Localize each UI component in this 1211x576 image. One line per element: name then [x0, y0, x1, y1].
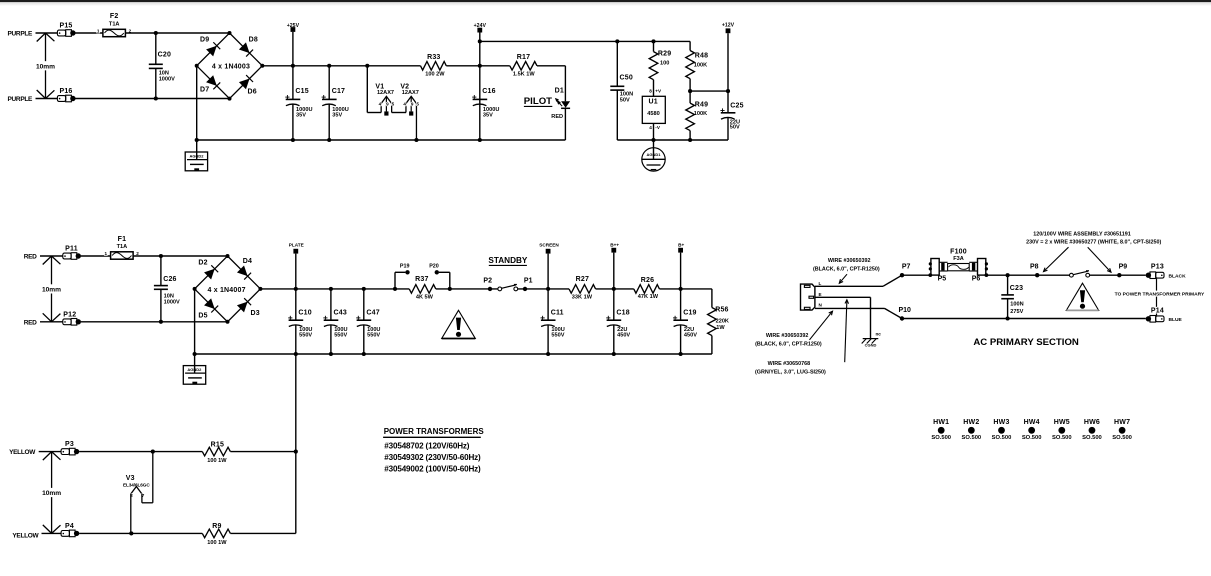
- node junction C47 on bus: [362, 287, 366, 291]
- label 4 x 1N4007: [207, 287, 245, 294]
- wire switch to SCREEN node: [518, 288, 569, 290]
- capacitor C20 10N 1000V: [149, 33, 175, 99]
- svg-text:4: 4: [403, 102, 406, 107]
- node junction R48 bottom: [688, 89, 692, 93]
- node junction R49 bottom: [688, 138, 692, 142]
- wire R37 to switch: [436, 288, 498, 290]
- note POWER TRANSFORMERS heading: [383, 427, 484, 438]
- switch standby P2-P1: [498, 285, 518, 291]
- svg-text:120/100V WIRE ASSEMBLY #306511: 120/100V WIRE ASSEMBLY #30651191: [1033, 231, 1131, 237]
- wire bottom bus segment A: [197, 139, 566, 141]
- wire PURPLE leader to P15: [36, 32, 58, 34]
- power rail +25V: [287, 23, 300, 66]
- svg-text:50V: 50V: [730, 124, 740, 130]
- svg-text:+12V: +12V: [722, 23, 735, 29]
- svg-text:D9: D9: [200, 36, 209, 43]
- hardware HW4 SO.500: [1022, 419, 1042, 441]
- svg-text:47K 1W: 47K 1W: [638, 294, 659, 300]
- svg-text:450V: 450V: [684, 332, 697, 338]
- resistor R15 100 1W: [202, 441, 230, 464]
- svg-text:P6: P6: [972, 276, 981, 283]
- bridge rectifier diamond (middle): [193, 254, 263, 324]
- ground AGND2 (top): [185, 140, 207, 171]
- wire P12 to bridge bottom vertex: [81, 321, 228, 323]
- label PILOT: [524, 96, 553, 107]
- ground CGND chassis: [862, 331, 882, 347]
- svg-text:BLUE: BLUE: [1169, 317, 1183, 323]
- connector P11: [63, 245, 81, 259]
- diode D3: [237, 298, 260, 317]
- arrow to P8 side: [1044, 247, 1069, 271]
- node RED lower input label: [24, 319, 37, 326]
- wire IEC N to P10: [815, 308, 902, 318]
- node junction C15 bottom: [291, 138, 295, 142]
- power rail SCREEN: [539, 243, 559, 289]
- svg-text:R56: R56: [715, 307, 728, 314]
- svg-text:50V: 50V: [620, 98, 630, 104]
- svg-text:+V: +V: [655, 89, 662, 94]
- svg-text:P1: P1: [524, 277, 533, 284]
- svg-text:HW5: HW5: [1054, 419, 1070, 426]
- node junction V3 tap on P3 row: [151, 450, 155, 454]
- node P7: [900, 264, 911, 278]
- svg-text:F2: F2: [110, 13, 119, 20]
- svg-text:R17: R17: [517, 54, 530, 61]
- tube heater V3 EL34/6L6GC: [123, 452, 153, 534]
- wire PLATE node down to heater section: [295, 354, 297, 533]
- svg-text:8: 8: [649, 89, 652, 94]
- node junction C23 bottom: [1006, 316, 1010, 320]
- svg-text:4 x 1N4003: 4 x 1N4003: [212, 63, 250, 70]
- capacitor C19 22U 450V: [673, 289, 697, 354]
- wire P16 to bridge bottom vertex: [76, 98, 230, 100]
- node junction C43 bottom: [329, 352, 333, 356]
- svg-text:550V: 550V: [299, 332, 312, 338]
- svg-text:33K 1W: 33K 1W: [572, 295, 593, 301]
- svg-text:-V: -V: [655, 125, 661, 130]
- svg-text:450V: 450V: [617, 332, 630, 338]
- diode D4: [237, 258, 252, 280]
- wire P8 to switch: [1037, 274, 1069, 276]
- node junction C10/PLATE on bus: [294, 287, 298, 291]
- node junction C43 on bus: [329, 287, 333, 291]
- node PURPLE lower input label: [8, 96, 34, 103]
- svg-text:CGND: CGND: [865, 343, 877, 348]
- svg-text:P2: P2: [483, 277, 492, 284]
- wire YELLOW leader to P3: [39, 451, 61, 453]
- capacitor C17 1000U 35V: [322, 66, 349, 140]
- node junction AGND2 tap (middle): [193, 352, 197, 356]
- svg-text:#30548702 (120V/60Hz): #30548702 (120V/60Hz): [384, 441, 470, 450]
- node P8: [1030, 264, 1039, 278]
- svg-text:(BLACK, 6.0", CPT-R1250): (BLACK, 6.0", CPT-R1250): [755, 341, 822, 347]
- svg-text:5: 5: [416, 102, 419, 107]
- svg-text:P8: P8: [1030, 264, 1039, 271]
- svg-text:R49: R49: [695, 102, 708, 109]
- svg-text:#30549002 (100V/50-60Hz): #30549002 (100V/50-60Hz): [384, 465, 481, 474]
- label AC PRIMARY SECTION: [973, 337, 1079, 348]
- resistor R26 47K 1W: [634, 277, 660, 300]
- diode D7: [200, 75, 220, 93]
- svg-text:230V = 2 x WIRE #30650277 (WHI: 230V = 2 x WIRE #30650277 (WHITE, 8.0", …: [1026, 239, 1161, 245]
- wire bottom bus segment B: [617, 139, 728, 141]
- diode D9: [200, 36, 220, 56]
- svg-text:AC PRIMARY SECTION: AC PRIMARY SECTION: [973, 337, 1079, 348]
- svg-text:WIRE #30650768: WIRE #30650768: [768, 361, 811, 367]
- svg-text:P9: P9: [1119, 264, 1128, 271]
- svg-text:SO.500: SO.500: [1022, 435, 1042, 441]
- wire top main bus (bridge+ to +24V node): [262, 65, 420, 67]
- resistor R17 1.5K 1W: [480, 54, 537, 77]
- connector P14 BLUE: [1146, 307, 1183, 323]
- node YELLOW upper input label: [9, 449, 36, 456]
- note transformer part 30549302: [384, 453, 481, 462]
- capacitor C15 1000U 35V: [285, 66, 312, 140]
- wire sub-bus +24V to R48: [480, 40, 690, 42]
- svg-text:35V: 35V: [332, 113, 342, 119]
- note wire 30650392 upper: [813, 258, 880, 283]
- svg-text:220K: 220K: [716, 319, 729, 325]
- capacitor C43 100U 550V: [323, 289, 347, 354]
- svg-text:P7: P7: [902, 264, 911, 271]
- svg-text:9: 9: [411, 102, 414, 107]
- svg-text:WIRE #30650392: WIRE #30650392: [766, 333, 809, 339]
- svg-text:4K 5W: 4K 5W: [416, 295, 434, 301]
- svg-text:R48: R48: [695, 53, 708, 60]
- node junction +12V/C25: [726, 89, 730, 93]
- node junction C26 bottom: [159, 320, 163, 324]
- svg-text:C10: C10: [298, 310, 311, 317]
- diode D8: [239, 36, 258, 56]
- svg-text:P10: P10: [898, 307, 911, 314]
- power rail B+: [678, 243, 684, 289]
- svg-text:C11: C11: [551, 310, 564, 317]
- hardware HW2 SO.500: [962, 419, 982, 441]
- svg-text:12AX7: 12AX7: [402, 90, 419, 96]
- svg-text:35V: 35V: [296, 113, 306, 119]
- node junction C26 top: [159, 254, 163, 258]
- diode D6: [239, 75, 257, 95]
- wire R9 to main vertical: [230, 532, 295, 534]
- node junction V2 pin5 on bottom bus: [414, 138, 418, 142]
- bridge rectifier diamond (top): [195, 31, 265, 101]
- node junction R15 right: [294, 450, 298, 454]
- node junction C17 bottom: [327, 138, 331, 142]
- jumper P20 test point: [429, 264, 450, 289]
- capacitor C25 22U 50V: [720, 91, 743, 140]
- svg-text:C47: C47: [366, 310, 379, 317]
- resistor R49 100K: [686, 91, 708, 140]
- svg-text:1: 1: [105, 251, 108, 256]
- ground AGND1 circle: [642, 140, 665, 171]
- svg-text:P3: P3: [65, 441, 74, 448]
- node junction AGND2 tap (top): [195, 138, 199, 142]
- note wire 30650768 grn/yel: [755, 300, 849, 376]
- diode D5: [198, 298, 218, 319]
- svg-text:C15: C15: [295, 88, 308, 95]
- svg-text:275V: 275V: [1010, 309, 1023, 315]
- label STANDBY: [488, 256, 528, 266]
- fuse F1 T1A: [105, 236, 140, 259]
- hardware HW1 SO.500: [931, 419, 951, 441]
- svg-text:C50: C50: [620, 75, 633, 82]
- svg-text:RED: RED: [24, 319, 37, 326]
- svg-text:B+: B+: [678, 243, 684, 248]
- svg-text:9: 9: [386, 102, 389, 107]
- wire R26 to R56 branch: [659, 288, 712, 290]
- svg-text:R27: R27: [576, 276, 589, 283]
- svg-text:1000V: 1000V: [164, 299, 180, 305]
- svg-text:SCREEN: SCREEN: [539, 243, 559, 248]
- svg-text:P20: P20: [429, 264, 439, 270]
- svg-text:P5: P5: [938, 276, 947, 283]
- resistor R29 100: [649, 41, 671, 96]
- capacitor C11 100U 550V: [541, 289, 565, 354]
- svg-text:1W: 1W: [716, 325, 725, 331]
- capacitor C26 10N 1000V: [154, 256, 180, 322]
- wire YELLOW leader to P4: [42, 532, 62, 534]
- svg-text:D2: D2: [198, 260, 207, 267]
- connector P4: [61, 523, 79, 537]
- svg-text:D7: D7: [200, 87, 209, 94]
- node junction R37 left: [393, 287, 397, 291]
- wire P13 to P14 link: [1156, 279, 1158, 316]
- node junction C23 top: [1006, 273, 1010, 277]
- tube heater V2 12AX7: [400, 83, 419, 140]
- svg-text:P4: P4: [65, 523, 74, 530]
- capacitor C10 100U 550V: [288, 289, 312, 354]
- svg-text:5: 5: [392, 102, 395, 107]
- svg-text:(BLACK, 6.0", CPT-R1250): (BLACK, 6.0", CPT-R1250): [813, 267, 880, 273]
- svg-text:HW4: HW4: [1024, 419, 1040, 426]
- capacitor C18 22U 450V: [606, 289, 630, 354]
- svg-text:C43: C43: [334, 310, 347, 317]
- node junction C10 bottom: [294, 352, 298, 356]
- note wire 30650392 lower: [755, 311, 832, 347]
- svg-text:HW2: HW2: [963, 419, 979, 426]
- svg-text:C25: C25: [730, 102, 743, 109]
- wire RED leader to P12: [40, 321, 63, 323]
- svg-text:N: N: [819, 303, 823, 308]
- svg-text:RED: RED: [24, 254, 37, 261]
- hardware HW7 SO.500: [1112, 419, 1132, 441]
- node junction heater branch: [365, 64, 369, 68]
- dimension arrow 10mm (red pair): [41, 256, 62, 322]
- svg-text:P12: P12: [63, 311, 76, 318]
- svg-text:B++: B++: [610, 243, 619, 248]
- connector P16: [57, 88, 75, 102]
- svg-text:4 x 1N4007: 4 x 1N4007: [207, 287, 245, 294]
- node P2 test point: [483, 277, 492, 291]
- svg-text:YELLOW: YELLOW: [12, 532, 39, 539]
- warning triangle (middle section): [442, 310, 476, 338]
- svg-text:C19: C19: [683, 310, 696, 317]
- resistor R27 33K 1W: [569, 276, 596, 301]
- svg-text:R29: R29: [658, 50, 671, 57]
- node junction C11 bottom: [546, 352, 550, 356]
- svg-text:100 2W: 100 2W: [425, 71, 445, 77]
- svg-text:R37: R37: [415, 276, 428, 283]
- svg-text:1.5K 1W: 1.5K 1W: [513, 71, 535, 77]
- svg-text:D5: D5: [198, 312, 207, 319]
- svg-text:C18: C18: [616, 310, 629, 317]
- resistor R48 100K: [686, 41, 708, 91]
- svg-text:E: E: [819, 292, 822, 297]
- svg-text:(GRN/YEL, 3.0", LUG-SI250): (GRN/YEL, 3.0", LUG-SI250): [755, 370, 826, 376]
- svg-text:SO.500: SO.500: [992, 435, 1012, 441]
- svg-text:1000V: 1000V: [159, 77, 175, 83]
- capacitor C50 100N 50V: [610, 41, 633, 140]
- svg-text:#30549302 (230V/50-60Hz): #30549302 (230V/50-60Hz): [384, 453, 481, 462]
- node junction C47 bottom: [362, 352, 366, 356]
- svg-text:C23: C23: [1010, 285, 1023, 292]
- svg-text:PILOT: PILOT: [524, 96, 552, 107]
- svg-text:4580: 4580: [647, 111, 659, 117]
- svg-text:P13: P13: [1151, 264, 1164, 271]
- diode D2: [198, 260, 218, 280]
- svg-text:POWER TRANSFORMERS: POWER TRANSFORMERS: [384, 427, 485, 436]
- svg-text:10mm: 10mm: [42, 287, 61, 294]
- svg-text:RED: RED: [551, 114, 563, 120]
- wire switch to P9 to P13: [1090, 274, 1146, 276]
- ground AGND2 (middle): [183, 354, 205, 384]
- wire P7 to F100: [902, 274, 930, 276]
- wire R48/R49 node to +12V rail: [690, 90, 728, 92]
- svg-text:SO.500: SO.500: [1082, 435, 1102, 441]
- capacitor C47 100U 550V: [356, 289, 380, 354]
- connector IEC inlet: [801, 281, 823, 310]
- hardware HW6 SO.500: [1082, 419, 1102, 441]
- svg-text:TO POWER TRANSFORMER PRIMARY: TO POWER TRANSFORMER PRIMARY: [1115, 291, 1205, 297]
- svg-text:PLATE: PLATE: [289, 243, 304, 248]
- node junction C50 top: [615, 39, 619, 43]
- svg-text:100N: 100N: [620, 91, 633, 97]
- dimension arrow 10mm (yellow pair): [41, 452, 62, 534]
- wire R33 to +24V node: [446, 65, 480, 67]
- LED D1 RED: [551, 88, 570, 120]
- node junction C18 bottom: [612, 352, 616, 356]
- svg-text:YELLOW: YELLOW: [9, 449, 36, 456]
- wire bridge- to bottom bus (middle): [194, 289, 196, 354]
- svg-text:D3: D3: [251, 310, 260, 317]
- wire R17 to LED branch: [537, 66, 565, 102]
- svg-text:4: 4: [379, 102, 382, 107]
- svg-text:HW7: HW7: [1114, 419, 1130, 426]
- note TO POWER TRANSFORMER PRIMARY: [1115, 291, 1205, 297]
- node junction C20 bottom: [154, 96, 158, 100]
- svg-text:P16: P16: [59, 88, 72, 95]
- fuse F2 T1A: [97, 13, 132, 37]
- wire R15 to main vertical: [230, 451, 295, 453]
- wire R27 to R26: [596, 288, 634, 290]
- svg-text:100: 100: [660, 60, 669, 66]
- svg-text:AGND1: AGND1: [646, 152, 661, 157]
- node junction R37 right: [448, 287, 452, 291]
- svg-text:D4: D4: [243, 258, 252, 265]
- node junction C11/SCREEN on bus: [546, 287, 550, 291]
- node P9: [1117, 264, 1127, 278]
- node junction C18/B++ on bus: [612, 287, 616, 291]
- wire IEC L to P7: [815, 275, 902, 286]
- note transformer part 30549002: [384, 465, 481, 474]
- wire bridge- to bottom bus (top): [196, 66, 198, 140]
- wire LED to bottom bus: [564, 108, 566, 140]
- svg-text:PURPLE: PURPLE: [8, 96, 34, 103]
- svg-text:EL34/6L6GC: EL34/6L6GC: [123, 482, 150, 487]
- node junction C19 bottom: [679, 352, 683, 356]
- hardware HW5 SO.500: [1052, 419, 1072, 441]
- svg-text:10mm: 10mm: [42, 490, 61, 497]
- svg-text:F100: F100: [950, 249, 967, 256]
- svg-text:550V: 550V: [367, 332, 380, 338]
- op-amp U1 4580: [642, 89, 665, 140]
- svg-text:P11: P11: [65, 245, 78, 252]
- node junction U1/AGND1 on bus: [651, 138, 655, 142]
- hardware HW3 SO.500: [992, 419, 1012, 441]
- svg-text:nc: nc: [876, 331, 882, 336]
- node RED upper input label: [24, 254, 37, 261]
- svg-text:SO.500: SO.500: [931, 435, 951, 441]
- wire F100 to C23 node: [986, 274, 1037, 276]
- wire F1 to bridge top vertex: [134, 255, 228, 257]
- svg-text:SO.500: SO.500: [962, 435, 982, 441]
- tube heater V1 12AX7: [375, 83, 394, 115]
- svg-text:R15: R15: [211, 441, 224, 448]
- svg-text:AGND2: AGND2: [187, 367, 202, 372]
- note 120/100V wire assembly: [1026, 231, 1161, 245]
- svg-text:D6: D6: [248, 88, 257, 95]
- svg-text:T1A: T1A: [109, 21, 120, 27]
- power rail +12V: [722, 23, 735, 92]
- svg-text:R33: R33: [427, 54, 440, 61]
- svg-text:F3A: F3A: [953, 256, 964, 262]
- svg-text:L: L: [819, 281, 822, 286]
- fuse holder F100 F3A with clips P5 P6: [928, 249, 988, 283]
- node junction R29 top: [651, 39, 655, 43]
- svg-text:10N: 10N: [159, 71, 169, 77]
- connector P13 BLACK: [1146, 264, 1186, 280]
- wire P3 row: [79, 451, 202, 453]
- svg-text:BLACK: BLACK: [1169, 273, 1187, 279]
- resistor R56 220K 1W: [708, 289, 729, 354]
- svg-text:D1: D1: [555, 88, 564, 95]
- svg-text:100K: 100K: [694, 111, 707, 117]
- svg-text:550V: 550V: [551, 332, 564, 338]
- svg-text:SO.500: SO.500: [1112, 435, 1132, 441]
- svg-text:C17: C17: [332, 88, 345, 95]
- arrow to P9 side: [1088, 247, 1111, 272]
- svg-text:P15: P15: [59, 23, 72, 30]
- node P1 test point: [523, 277, 533, 291]
- jumper P19 test point: [395, 264, 410, 289]
- svg-text:35V: 35V: [483, 113, 493, 119]
- node junction sub-bus at +24V: [478, 39, 482, 43]
- dimension arrow 10mm (purple pair): [35, 33, 56, 99]
- connector P15: [57, 23, 75, 37]
- power rail B++: [610, 243, 619, 289]
- resistor R37 4K 5W: [409, 276, 436, 301]
- svg-text:V3: V3: [126, 475, 135, 482]
- svg-text:SO.500: SO.500: [1052, 435, 1072, 441]
- power rail PLATE: [289, 243, 304, 289]
- node junction C15 on bus: [291, 64, 295, 68]
- wire P4 row: [79, 532, 202, 534]
- node junction C16 bottom: [478, 138, 482, 142]
- wire V1 pin5 to V2 pin4: [392, 112, 406, 114]
- svg-text:P14: P14: [1151, 307, 1164, 314]
- svg-text:P19: P19: [400, 264, 410, 270]
- capacitor C23 100N 275V: [1001, 275, 1023, 318]
